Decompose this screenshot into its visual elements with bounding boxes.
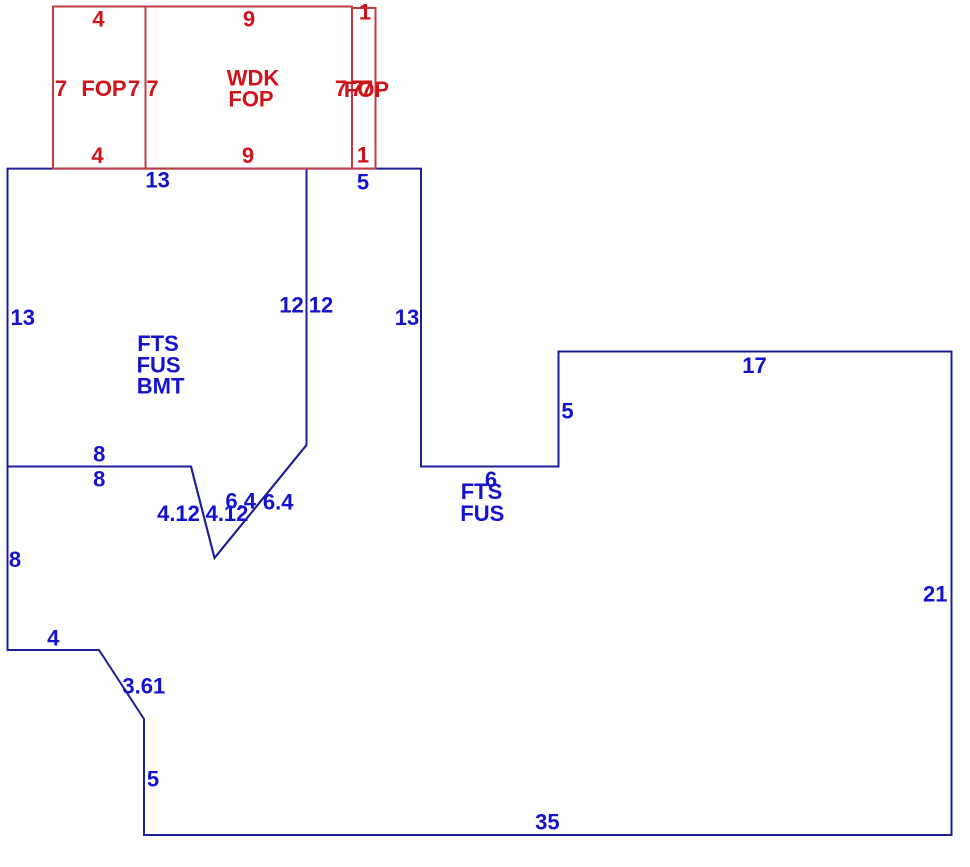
svg-text:3.61: 3.61 [122,674,165,699]
svg-text:12: 12 [309,293,333,318]
svg-text:13: 13 [10,305,34,330]
svg-text:BMT: BMT [137,374,185,399]
svg-text:1: 1 [359,0,371,25]
svg-text:4: 4 [91,143,104,168]
WDK FOP deck rectangle (middle) [146,7,353,169]
svg-text:13: 13 [145,168,169,193]
svg-text:4: 4 [92,7,105,32]
svg-text:5: 5 [357,170,369,195]
svg-text:FOP: FOP [81,76,126,101]
svg-text:4.12: 4.12 [206,501,249,526]
FTS FUS area polygon (right blue shape) [8,169,952,835]
svg-text:FOP: FOP [228,87,273,112]
svg-text:17: 17 [742,353,766,378]
svg-text:7: 7 [128,76,140,101]
svg-text:35: 35 [535,810,559,835]
svg-text:8: 8 [93,441,105,466]
FTS FUS BMT area polygon (left blue shape) [8,169,307,558]
svg-text:9: 9 [242,143,254,168]
svg-text:8: 8 [93,466,105,491]
svg-text:FUS: FUS [460,501,504,526]
FOP porch rectangle (right, 1 ft wide) [352,8,376,169]
svg-text:5: 5 [147,766,159,791]
svg-text:4.12: 4.12 [157,501,200,526]
svg-text:1: 1 [357,143,369,168]
svg-text:8: 8 [9,547,21,572]
svg-text:5: 5 [561,399,573,424]
svg-text:12: 12 [279,293,303,318]
svg-text:4: 4 [47,626,60,651]
svg-text:13: 13 [395,305,419,330]
svg-text:9: 9 [243,6,255,31]
svg-text:7: 7 [55,76,67,101]
svg-text:7: 7 [146,76,158,101]
FOP porch rectangle (left) [53,7,146,169]
svg-text:6.4: 6.4 [263,490,294,515]
svg-text:7: 7 [361,76,373,101]
svg-text:21: 21 [923,582,947,607]
